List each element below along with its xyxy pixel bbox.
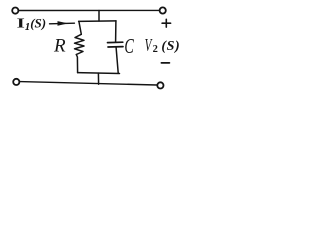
plus sign (162, 19, 171, 27)
terminal bottom-right (157, 82, 163, 88)
terminal bottom-left (13, 79, 19, 85)
resistor R (75, 34, 85, 54)
label C (124, 34, 134, 58)
svg-text:C: C (124, 34, 134, 58)
svg-text:V: V (145, 37, 153, 56)
capacitor C top lead (115, 21, 117, 42)
terminal top-left (12, 8, 18, 14)
label R (53, 36, 66, 57)
capacitor C bottom lead (116, 47, 118, 73)
wire resistor bottom lead (76, 55, 77, 73)
wire bottom (20, 82, 157, 85)
arrow for I1(S) (50, 21, 75, 26)
svg-text:R: R (53, 36, 66, 57)
wire stub bottom node (97, 73, 99, 84)
label I1(S) (17, 15, 46, 33)
wire bottom bar of RC branch (78, 72, 120, 75)
wire top bar of RC branch (79, 20, 116, 23)
wire stub top node (98, 11, 100, 22)
minus sign (161, 62, 169, 64)
svg-text:(S): (S) (30, 16, 46, 31)
wire top (19, 9, 159, 11)
svg-text:(S): (S) (161, 39, 180, 54)
capacitor C plates (108, 42, 124, 47)
terminal top-right (160, 7, 166, 13)
svg-text:I: I (17, 15, 25, 31)
wire resistor top lead (79, 21, 81, 34)
label V2(S) (145, 37, 181, 56)
svg-text:2: 2 (153, 44, 158, 55)
